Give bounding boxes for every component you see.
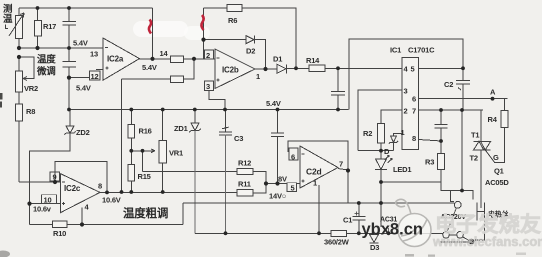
junction at (358.8,203) (357, 201, 361, 205)
red annotation mark 1 (149, 20, 151, 34)
wire R10 line (30, 224, 184, 226)
svg-text:R8: R8 (26, 107, 35, 116)
svg-text:9: 9 (53, 173, 57, 182)
plug top circle (454, 201, 461, 208)
wire R12 line (143, 171, 238, 173)
triac Q1 (474, 141, 491, 150)
junction at (131.3,192) (129, 190, 133, 194)
wire pin3 node to zener/led row (358, 150, 394, 152)
svg-text:5.4V: 5.4V (142, 63, 157, 72)
wire IC1 pin3 (358, 90, 402, 151)
wire IC1 pin7 (419, 109, 484, 111)
junction at (441,110) (439, 108, 443, 112)
svg-text:微调: 微调 (36, 66, 56, 78)
svg-text:R10: R10 (53, 229, 66, 238)
svg-text:1: 1 (256, 72, 260, 81)
svg-text:C3: C3 (234, 134, 243, 143)
wire R15 to bottom bus (130, 181, 132, 192)
wire D2 to output node (255, 40, 266, 69)
svg-text:G: G (493, 153, 499, 162)
wire plug cord diagonal (448, 208, 457, 231)
wire output feedback up to top rail (152, 8, 154, 59)
junction at (194.8,109.5) (193, 108, 197, 112)
wire ZD2 to pin10 of IC2c (30, 133, 71, 224)
wire IC2d output (338, 169, 348, 171)
diode D2 (246, 36, 255, 44)
svg-text:6: 6 (412, 95, 416, 104)
svg-text:1: 1 (401, 128, 405, 137)
svg-text:ybx8.cn: ybx8.cn (362, 221, 423, 239)
svg-text:R3: R3 (425, 158, 434, 167)
capacitor (pin8 filter) (435, 110, 448, 141)
wire IC1 pin1 (394, 134, 403, 136)
junction at (225,109.5) (223, 108, 227, 112)
pin 9 label box (50, 172, 60, 181)
svg-text:8V: 8V (278, 175, 287, 184)
zener ZD1 (189, 123, 200, 132)
wire pin12 5.4V node (69, 70, 103, 78)
resistor R2 (378, 124, 385, 144)
junction at (225.5,233.3) (224, 231, 228, 235)
junction at (69,77.6) (67, 76, 71, 80)
op-amp IC2a (103, 38, 140, 80)
svg-text:R12: R12 (238, 159, 251, 168)
wire mid 5.4V bus (69, 109, 349, 111)
svg-text:2: 2 (404, 107, 408, 116)
capacitor C1 (353, 203, 366, 233)
junction at (19,57) (17, 55, 21, 59)
wire R3 to AC lower row (441, 170, 473, 200)
wire IC2d pin11 (318, 185, 320, 233)
svg-text:温度粗调: 温度粗调 (123, 206, 168, 220)
resistor R16 (128, 124, 135, 138)
junction at (37.5,8) (36, 6, 40, 10)
wire IC2c feedback loop (55, 162, 107, 193)
red annotation mark 2 (201, 15, 203, 30)
junction at (29.5,203.6) (27, 202, 31, 206)
svg-text:R4: R4 (488, 115, 498, 124)
resistor R3 (438, 154, 445, 170)
svg-text:C2: C2 (444, 80, 453, 89)
svg-text:7: 7 (339, 160, 343, 169)
wire R12 right riser (253, 172, 266, 184)
junction at (162.7,192) (161, 190, 165, 194)
wire IC2c pin4 (81, 208, 83, 225)
svg-text:ZD2: ZD2 (76, 128, 90, 137)
junction at (463,68.3) (461, 66, 465, 70)
wire LED1 to bus / R3 row (381, 170, 441, 182)
wire VR1 wiper (131, 149, 155, 172)
pin 6 label box (289, 148, 298, 160)
junction at (162.7,109.5) (161, 108, 165, 112)
junction at (348,170.5) (346, 168, 350, 172)
wire IC2a output pin 14 (140, 58, 171, 60)
junction at (492.5,98.7) (491, 97, 495, 101)
junction at (358.8,233.3) (357, 231, 361, 235)
svg-text:ZD1: ZD1 (174, 124, 188, 133)
capacitor C (second, left column) (63, 48, 77, 78)
svg-text:www.elecfans.com: www.elecfans.com (432, 234, 542, 249)
svg-text:D2: D2 (246, 47, 255, 56)
pin 5 label box (287, 183, 297, 192)
svg-text:IC2b: IC2b (222, 66, 239, 75)
wire lower resistor left to riser (122, 78, 171, 80)
junction at (277.5,183.5) (275, 181, 279, 185)
pin 12 label box (90, 71, 101, 80)
wire T1 column (480, 110, 482, 141)
wire thermistor column top (18, 8, 20, 16)
svg-text:14V○: 14V○ (269, 192, 286, 201)
wire VR1 column (162, 110, 164, 193)
svg-text:D3: D3 (370, 243, 379, 252)
svg-text:C2d: C2d (306, 167, 321, 177)
junction at (203.5,39.6) (201, 38, 205, 42)
junction at (194,58.8) (192, 57, 196, 61)
wire IC2d feedback loop (288, 141, 348, 171)
svg-text:5: 5 (411, 65, 415, 74)
wire zener ZD2 column (69, 110, 71, 127)
wire into VR2 top (18, 57, 20, 71)
resistor R15 (128, 165, 135, 182)
wire zener ZD1 column (194, 110, 196, 124)
wire R8 down to pin9 line (18, 121, 20, 182)
svg-text:LED1: LED1 (393, 165, 411, 174)
svg-text:D: D (384, 147, 390, 156)
wire cap column top (68, 8, 70, 21)
junction at (471.5,241.5) (469, 239, 475, 245)
pin 3 label box (205, 81, 214, 91)
svg-text:T1: T1 (471, 131, 479, 140)
junction at (121.5,192) (120, 190, 124, 194)
wire pin5 top loop (349, 39, 463, 110)
resistor R4 (501, 111, 508, 128)
wire VR2 to R8 (18, 92, 20, 104)
svg-text:VR2: VR2 (24, 84, 38, 93)
op-amp IC2b (215, 49, 255, 89)
svg-text:5.4V: 5.4V (73, 39, 88, 48)
junction at (107,192.4) (105, 191, 109, 195)
svg-text:IC2a: IC2a (107, 55, 124, 64)
svg-text:6: 6 (291, 153, 295, 162)
svg-text:D1: D1 (273, 55, 282, 64)
wire R16/R15 chain top (130, 110, 132, 125)
junction at (462,110) (460, 108, 464, 112)
wire bottom rail (195, 232, 443, 234)
wire riser x121 to bottom bus (121, 79, 123, 192)
diode D3 (370, 234, 379, 243)
wire R6 to D1 junction (242, 8, 296, 68)
svg-text:8: 8 (412, 134, 416, 143)
wire IC2c output into bottom bus (100, 191, 237, 193)
diode D1 (277, 64, 287, 73)
svg-text:R11: R11 (238, 180, 251, 189)
svg-text:10: 10 (44, 196, 52, 205)
wire lower resistor right riser (184, 59, 195, 79)
potentiometer VR1 (159, 140, 166, 163)
watermark logo circle (396, 199, 431, 246)
wire thermistor bottom (18, 39, 20, 49)
capacitor C3 column (219, 110, 232, 136)
svg-text:C1: C1 (343, 216, 352, 225)
junction at (296,68.3) (294, 66, 298, 70)
junction at (277.5,109.5) (276, 108, 280, 112)
junction at (266,183.5) (264, 181, 268, 185)
left edge artifacts (0, 93, 3, 100)
svg-text:3: 3 (206, 82, 210, 91)
wire D3 column (388, 228, 390, 233)
resistor R8 (16, 104, 23, 121)
svg-text:R14: R14 (306, 56, 320, 65)
pin 2 label box (205, 50, 214, 59)
wire heater bottom (475, 221, 485, 241)
zener ZD2 (64, 126, 75, 135)
resistor R14 (309, 65, 325, 72)
junction at (338,109.5) (336, 108, 340, 112)
junction at (381,203) (379, 201, 383, 205)
wire R11 right riser (253, 184, 266, 193)
pin 10 label box (42, 195, 57, 204)
wire resistor to IC2b pin2 node (184, 58, 216, 60)
svg-text:C1701C: C1701C (408, 46, 435, 55)
capacitor (IC2d + input) column (271, 110, 284, 184)
junction at (69,109.5) (67, 108, 71, 112)
svg-text:10.6V: 10.6V (102, 196, 121, 205)
junction at (131.3,109.5) (129, 108, 133, 112)
op-amp IC2c (61, 174, 101, 213)
potentiometer VR2 (16, 71, 23, 92)
svg-text:温: 温 (3, 13, 13, 25)
wire output down to AC bus (347, 171, 349, 204)
wire D2 branch (204, 39, 247, 41)
wire LED column to AC bus (380, 182, 382, 227)
wire R4 to gate (485, 128, 504, 163)
wire C2 bottom riser down (461, 110, 463, 191)
svg-text:IC1: IC1 (390, 46, 401, 55)
junction at (82,224.5) (80, 222, 84, 226)
wire top rail (19, 7, 153, 9)
wire AC bus (middle) (183, 202, 454, 204)
svg-text:R17: R17 (43, 22, 56, 31)
bottom edge remnants (405, 254, 414, 257)
resistor R12 (237, 168, 253, 174)
svg-text:A: A (490, 88, 496, 97)
junction at (69,8) (67, 6, 71, 10)
wire IC2d pin5 line (266, 183, 300, 185)
wire R6/D2 riser (203, 8, 205, 59)
thermistor RT 测温 (16, 16, 23, 39)
wire top to R6 (204, 7, 228, 9)
resistor 360/2W (331, 230, 347, 236)
junction at (265.5,69) (263, 67, 267, 71)
junction at (142.5,150.8) (141, 149, 145, 153)
svg-text:360/2W: 360/2W (324, 238, 350, 247)
capacitor C (top left) (63, 21, 77, 25)
wire plug branch (451, 191, 455, 202)
svg-text:R6: R6 (228, 16, 237, 25)
op-amp IC2d (300, 146, 338, 188)
svg-text:温度: 温度 (37, 54, 56, 66)
heater element 电热丝 (477, 203, 485, 221)
svg-text:R15: R15 (138, 172, 151, 181)
svg-text:8: 8 (98, 182, 102, 191)
wire T2 down to heater (480, 150, 482, 208)
junction at (319,233.3) (317, 231, 321, 235)
svg-text:2: 2 (206, 51, 210, 60)
bottom-left corner smudge (0, 251, 10, 257)
junction at (338,68.3) (336, 66, 340, 70)
resistor R17 (35, 21, 42, 37)
wire VR2 wiper loop (19, 57, 34, 81)
wire R3 column (440, 141, 442, 154)
junction at (441,141) (439, 139, 443, 143)
capacitor (pin4 filter) column (331, 68, 345, 109)
resistor R11 (237, 190, 253, 196)
wire IC1 pin2 to R2 (381, 110, 402, 124)
svg-text:3: 3 (404, 87, 408, 96)
junction at (381,150.7) (379, 149, 383, 153)
junction at (152.5,58.8) (150, 57, 154, 61)
junction at (388.5,233.3) (387, 231, 391, 235)
junction at (69,48) (67, 46, 71, 50)
wire IC2b pin3 to bus (209, 91, 225, 110)
wire R16 to mid node (130, 138, 132, 165)
svg-text:10.6v: 10.6v (33, 205, 52, 214)
svg-text:IC2c: IC2c (64, 184, 81, 193)
svg-text:1: 1 (313, 179, 317, 188)
svg-text:电子发烧友: 电子发烧友 (435, 212, 542, 237)
svg-text:5.4V: 5.4V (76, 84, 91, 93)
wire pin9 of IC2c (19, 181, 61, 183)
resistor R10 (53, 221, 68, 228)
wire IC1 pin5 to C2 node (419, 67, 464, 69)
svg-text:7: 7 (412, 107, 416, 116)
svg-text:5.4V: 5.4V (266, 99, 281, 108)
svg-text:5: 5 (291, 184, 295, 193)
LED LED1 (375, 159, 387, 170)
resistor R6 (227, 5, 242, 12)
wire AC bus left riser (182, 203, 184, 225)
wire cap to 5.4V rail (68, 25, 70, 48)
wire IC2b output to D1 (255, 68, 277, 70)
svg-text:R2: R2 (363, 129, 372, 138)
svg-text:AC05D: AC05D (485, 178, 509, 187)
wire IC1 pin8 (419, 140, 442, 142)
junction at (37.5,48) (35, 46, 39, 50)
junction at (462,190.5) (460, 189, 464, 193)
wire plug to corner node (440, 237, 469, 242)
svg-text:12: 12 (91, 72, 99, 81)
plug bottom circles (443, 232, 450, 239)
capacitor C2 (456, 68, 470, 110)
svg-text:14: 14 (160, 49, 169, 58)
junction at (19,48) (17, 46, 21, 50)
wire 5.4V node down to mid bus (68, 78, 70, 110)
resistor (lower series) (171, 76, 184, 82)
svg-text:13: 13 (90, 50, 98, 59)
wire ZD1 down to bottom rail (194, 131, 196, 234)
svg-text:T2: T2 (470, 154, 478, 163)
resistor (output series top) (171, 56, 184, 63)
junction at (131.3,150.8) (129, 149, 133, 153)
wire D1 to R14 (287, 68, 310, 70)
wire IC1 pin6 to node A (419, 98, 508, 100)
node A wire + R4 (493, 99, 505, 111)
wire pin10 branch (30, 203, 63, 205)
junction at (55,182) (53, 180, 57, 184)
svg-text:VR1: VR1 (169, 149, 183, 158)
zener (pin1) (389, 136, 398, 144)
wire R2 to node D (380, 143, 382, 159)
wire 5.4V rail to pin13 (19, 47, 103, 49)
wire R17 column (37, 8, 39, 48)
wire R14 to IC1 pin4 (325, 67, 402, 69)
IC1 C1701C box (402, 58, 419, 150)
svg-text:Q1: Q1 (494, 167, 504, 176)
svg-text:R16: R16 (139, 127, 152, 136)
junction at (381,182) (379, 180, 383, 184)
